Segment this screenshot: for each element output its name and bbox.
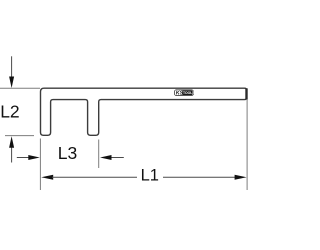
L2 arrow down <box>9 56 14 88</box>
svg-text:L2: L2 <box>0 101 19 121</box>
extension line L1 right <box>245 88 247 99</box>
extension line prong bottom <box>5 135 34 137</box>
L2 arrow up <box>9 136 14 162</box>
extension line L1 left <box>39 139 41 191</box>
L1 dimension line with outward arrows <box>41 175 246 180</box>
wrench body outline <box>41 88 247 135</box>
svg-text:L3: L3 <box>58 143 77 163</box>
L3 arrow left <box>100 155 124 160</box>
KS Tools logo <box>175 90 196 97</box>
svg-text:TOOLS: TOOLS <box>183 91 195 95</box>
extension line top edge <box>0 87 40 89</box>
L3 arrow right <box>17 155 40 160</box>
svg-text:L1: L1 <box>141 166 159 184</box>
extension line L3 right <box>98 140 100 169</box>
